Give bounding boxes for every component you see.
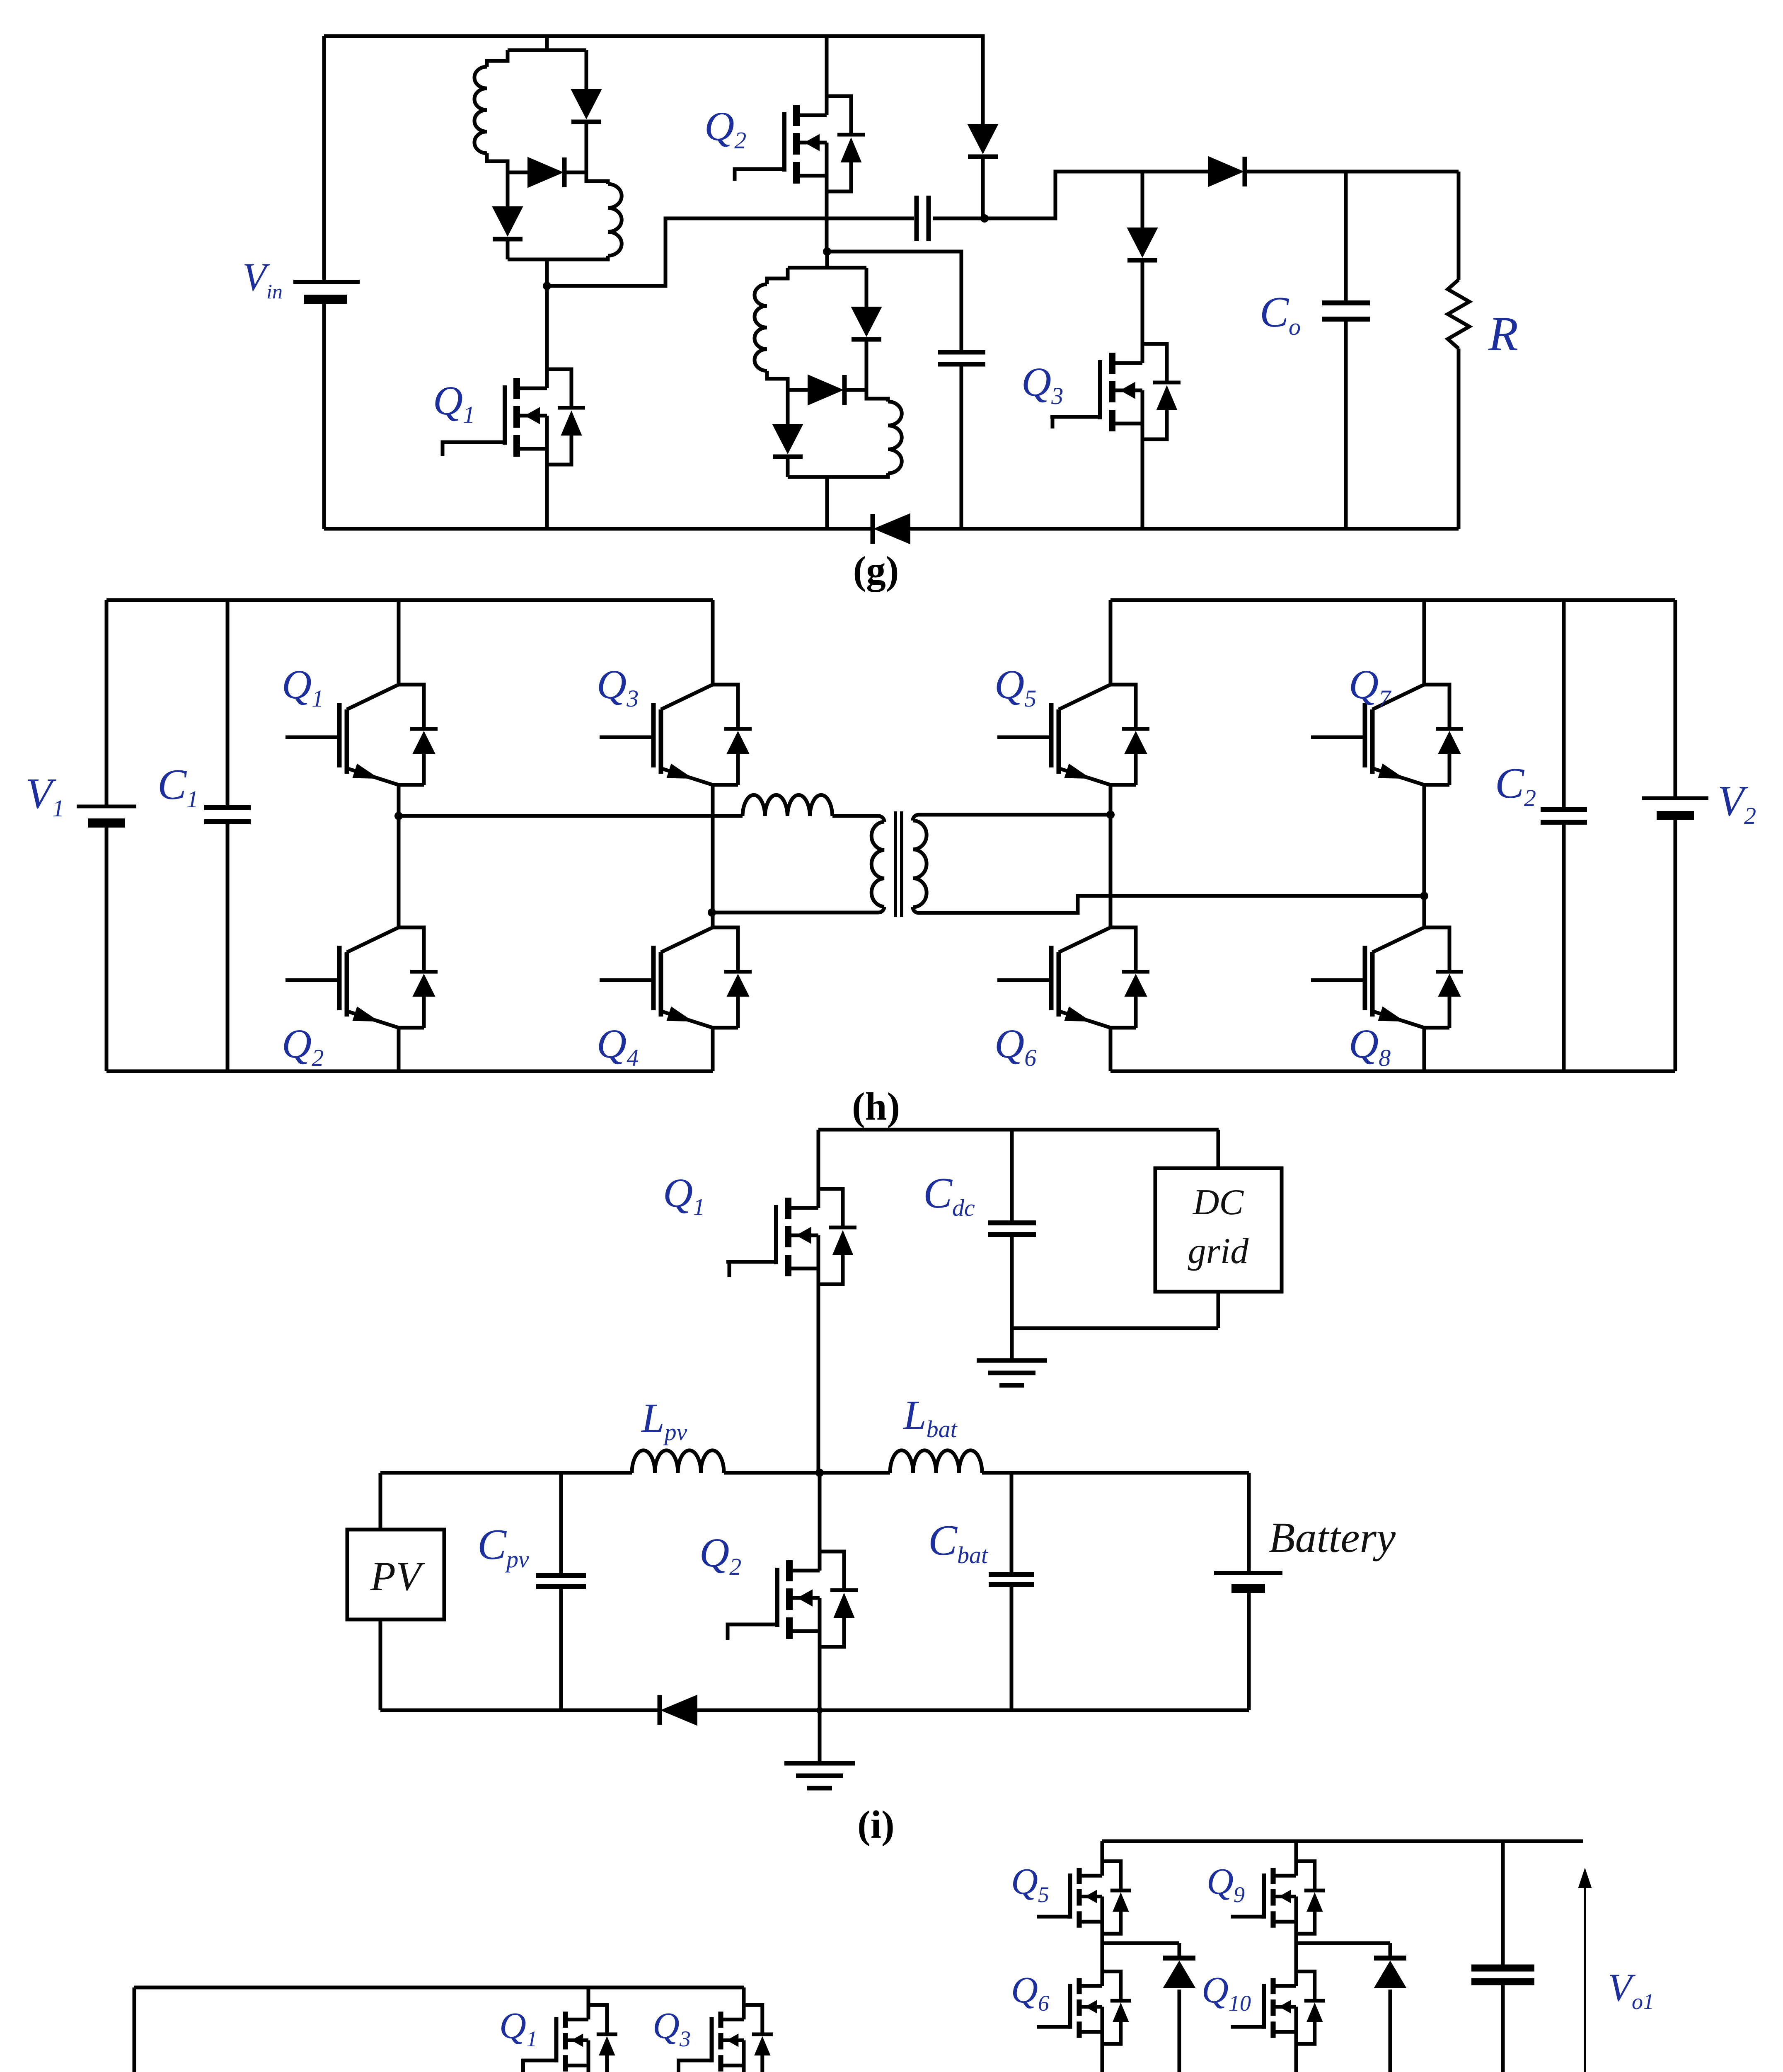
MOSFET Q2 — [825, 36, 829, 96]
svg-text:(i): (i) — [857, 1803, 895, 1847]
wire — [545, 259, 549, 286]
svg-text:(h): (h) — [852, 1084, 900, 1128]
wire cell1 to series capacitor — [547, 218, 914, 286]
wire boost diode to output — [1245, 170, 1459, 174]
wire (g) top rail — [324, 34, 981, 38]
inductor Lbat — [890, 1450, 982, 1473]
wire (j) left outer — [134, 1986, 744, 1990]
diode (cell lower-left, pointing down) — [506, 172, 510, 207]
IGBT Q5 — [1109, 600, 1113, 685]
diode Dc1 (j, clamp upper-left) — [1178, 1943, 1181, 1958]
node (h) leg B / primary return — [708, 908, 716, 917]
capacitor Cbat — [1010, 1473, 1014, 1575]
capacitor Cdc — [1010, 1130, 1014, 1223]
diode Dc2 (j, clamp upper-right) — [1389, 1943, 1392, 1958]
wire Q6 source to secondary node — [1101, 2044, 1104, 2072]
wire (i) mid rail — [380, 1471, 632, 1475]
wire (j) right top rail — [1102, 1840, 1583, 1843]
svg-text:PV: PV — [370, 1553, 425, 1599]
diode (cell middle, pointing right) — [788, 388, 808, 392]
wire (g) bottom rail left — [324, 527, 871, 531]
diode D3 (Q3 drain, pointing down) — [1127, 228, 1157, 257]
wire — [825, 477, 829, 503]
ground (i) upper — [1010, 1328, 1014, 1360]
wire Q1 source to bottom rail — [545, 465, 549, 529]
wire top-right corner down to diode — [981, 36, 983, 124]
wire DC grid leads — [1217, 1130, 1220, 1168]
node (h) leg B' mid — [1423, 787, 1426, 927]
node (i) mid — [815, 1469, 824, 1477]
node B junction — [980, 214, 989, 223]
wire Q2 source down — [818, 1647, 822, 1761]
wire Q9 source to clamp stub — [1296, 1934, 1390, 1943]
node Q2 source / bottom rail — [816, 1707, 823, 1714]
coupled inductor (cell lower-right) — [586, 172, 608, 184]
IGBT Q1 — [397, 600, 401, 685]
battery V2 — [1642, 796, 1708, 800]
wire Q10 source to secondary bottom node — [1294, 2044, 1298, 2072]
transformer core (h) — [894, 811, 897, 917]
wire (h) left bridge outer — [106, 598, 713, 602]
MOSFET Q3 (j) — [742, 1987, 746, 2009]
diode (cell upper-right, pointing down) — [865, 268, 869, 307]
wire — [508, 48, 586, 52]
capacitor Cs2 — [938, 350, 985, 355]
node (h) leg A' mid — [1109, 787, 1113, 815]
MOSFET Q1 (i) — [817, 1130, 820, 1189]
wire — [508, 258, 586, 261]
wire — [788, 475, 866, 479]
inductor Lk (h) — [743, 795, 832, 816]
MOSFET Q3 — [1142, 344, 1167, 382]
capacitor Co — [1344, 172, 1348, 303]
IGBT Q6 — [1109, 815, 1113, 927]
wire Q3 source to bottom rail — [1141, 439, 1144, 529]
wire node B step to boost diode line — [985, 172, 1208, 218]
IGBT Q3 — [711, 600, 715, 685]
IGBT Q7 — [1423, 600, 1426, 685]
wire cell2 to bottom rail — [825, 503, 829, 529]
wire Cdc to DC grid return — [1012, 1326, 1218, 1330]
node (h) leg A mid — [397, 787, 401, 816]
node A (cell1 bottom junction) — [543, 282, 551, 290]
battery V1 — [77, 805, 136, 808]
IGBT Q4 — [713, 927, 738, 972]
wire Q5 source to clamp stub — [1102, 1934, 1179, 1943]
IGBT Q8 — [1424, 927, 1449, 972]
svg-text:R: R — [1488, 307, 1518, 361]
wire node C to cap branch — [827, 252, 961, 352]
diode D2 (boost, pointing right) — [1208, 157, 1243, 186]
wire leg B — [711, 787, 715, 927]
capacitor Cpv — [559, 1473, 563, 1576]
ground (i) lower — [784, 1761, 855, 1766]
MOSFET Q5 (j) — [1101, 1841, 1104, 1866]
inductor (cell upper-left) — [767, 268, 788, 284]
capacitor C2 — [1562, 600, 1566, 810]
MOSFET Q9 (j) — [1294, 1841, 1298, 1866]
wire (g) bottom rail right — [910, 527, 1459, 531]
MOSFET Q6 (j) — [1101, 1943, 1104, 1976]
svg-text:grid: grid — [1188, 1231, 1249, 1271]
wire (i) bottom rail — [380, 1709, 659, 1712]
diode (cell lower-left, pointing down) — [786, 390, 790, 424]
diode (cell middle, pointing right) — [508, 171, 528, 174]
transformer primary (h) — [878, 816, 884, 822]
wire Q3 drain branch — [1141, 172, 1144, 228]
box DC grid — [1155, 1168, 1282, 1292]
battery Battery (i) — [1247, 1473, 1251, 1573]
wire Q1 source to mid node — [817, 1284, 820, 1473]
wire (h) right bridge outer — [1110, 598, 1675, 602]
wire (i) top rail — [818, 1128, 1219, 1132]
node C junction — [823, 247, 831, 256]
inductor Lpv — [632, 1450, 724, 1473]
wire — [825, 254, 829, 268]
MOSFET Q2 (i) — [818, 1473, 822, 1552]
wire — [788, 266, 866, 270]
wire — [545, 36, 549, 50]
capacitor Co1 (j) — [1501, 1841, 1505, 1968]
box PV — [379, 1473, 382, 1530]
diode (i) bottom, pointing left — [658, 1695, 662, 1725]
resistor R — [1457, 172, 1461, 280]
wire to node B — [933, 217, 985, 220]
MOSFET Q1 (j) — [587, 1987, 590, 2009]
coupled inductor (cell lower-right) — [866, 390, 888, 402]
svg-text:(g): (g) — [853, 548, 899, 592]
diode (cell upper-right, pointing down) — [585, 50, 588, 90]
svg-text:DC: DC — [1193, 1182, 1244, 1222]
capacitor Cs (series) — [914, 196, 919, 241]
wire Q2 source down to node C — [825, 191, 829, 252]
diode D1 (top, pointing down) — [968, 124, 998, 153]
capacitor C1 — [226, 600, 230, 808]
wire — [982, 1471, 1249, 1475]
MOSFET Q10 (j) — [1294, 1943, 1298, 1976]
transformer secondary (h) — [913, 815, 919, 821]
battery Vin — [322, 36, 326, 282]
IGBT Q2 — [397, 816, 401, 927]
MOSFET Q1 — [545, 286, 549, 369]
arrow Vo1 — [1584, 1871, 1586, 2072]
diode D4 (bottom rail, pointing left) — [871, 514, 875, 544]
svg-text:Battery: Battery — [1269, 1514, 1396, 1561]
inductor (cell upper-left) — [487, 50, 508, 67]
wire — [724, 1471, 890, 1475]
wire inductor line (node A to primary) — [399, 814, 743, 818]
